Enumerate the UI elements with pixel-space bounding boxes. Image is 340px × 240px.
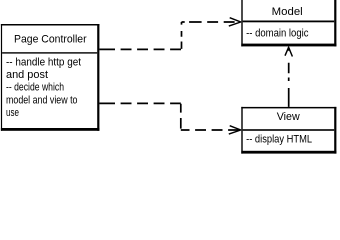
svg-text:-- handle http get: -- handle http get [6,56,81,68]
wire drop down at elbow x=180.8 [180,103,182,130]
wire top run into Model [182,21,241,23]
class box View [241,107,336,154]
arrowhead into Model [229,18,241,26]
wire dashed connector PageController to View : exit segment [98,103,240,130]
wire dashed connector View up to Model [288,47,290,107]
wire bottom run into View [181,129,241,131]
svg-text:View: View [277,111,300,123]
arrowhead up into Model bottom [285,47,292,56]
label Page Controller body [6,56,81,119]
class box Model (top edge clipped above canvas) [241,0,336,46]
arrowhead into View [229,126,241,134]
svg-text:Model: Model [272,6,303,18]
svg-text:use: use [6,107,19,119]
svg-text:and post: and post [6,69,48,81]
svg-text:Page Controller: Page Controller [14,34,87,46]
wire riser up at elbow x=181.5 [181,22,183,49]
svg-text:-- domain logic: -- domain logic [246,28,309,40]
svg-text:-- display HTML: -- display HTML [246,134,312,146]
svg-text:-- decide which: -- decide which [6,82,64,94]
class box Page Controller [1,24,100,131]
svg-text:model and view to: model and view to [6,94,78,106]
wire dashed connector PageController to Model : exit segment [98,22,240,49]
